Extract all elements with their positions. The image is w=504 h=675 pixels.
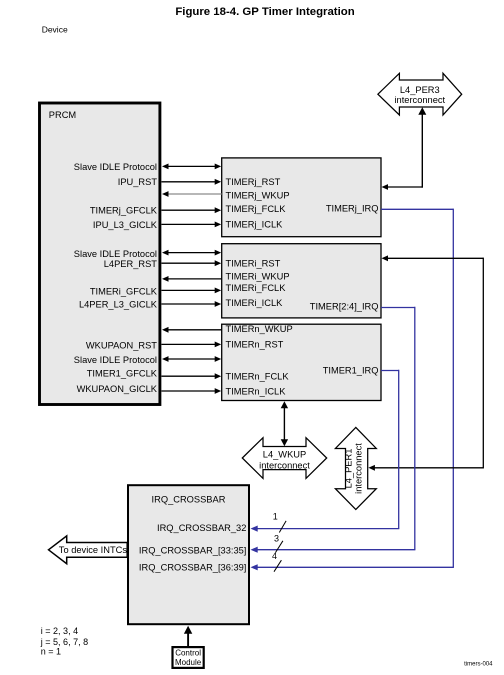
wire WKUPAON_GICLK -> TIMERn_ICLK <box>162 388 222 394</box>
bus slash 4 on IRQ_CROSSBAR_[36:39] wire <box>272 551 281 572</box>
wire L4PER_RST -> TIMERi_RST <box>162 260 222 266</box>
svg-text:L4_PER1: L4_PER1 <box>344 449 354 489</box>
svg-text:TIMERj_RST: TIMERj_RST <box>226 177 281 187</box>
wire TIMER1_IRQ -> IRQ_CROSSBAR_32 (blue) <box>251 370 400 532</box>
svg-text:TIMERn_WKUP: TIMERn_WKUP <box>226 324 293 334</box>
svg-text:L4PER_RST: L4PER_RST <box>104 259 158 269</box>
title Figure 18-4. GP Timer Integration <box>175 6 354 18</box>
svg-text:IRQ_CROSSBAR: IRQ_CROSSBAR <box>152 495 226 505</box>
label TIMERi_FCLK <box>226 283 287 293</box>
wire L4PER_L3_GICLK -> TIMERi_ICLK <box>162 301 222 307</box>
svg-text:n = 1: n = 1 <box>41 646 61 656</box>
svg-text:TIMER[2:4]_IRQ: TIMER[2:4]_IRQ <box>310 302 379 312</box>
svg-text:TIMER1_IRQ: TIMER1_IRQ <box>323 366 379 376</box>
wire TIMERj_GFCLK -> TIMERj_FCLK <box>162 207 222 213</box>
wire TIMER1_GFCLK -> TIMERn_FCLK <box>162 373 222 379</box>
svg-text:L4_WKUP: L4_WKUP <box>263 449 306 459</box>
svg-text:TIMERj_FCLK: TIMERj_FCLK <box>226 204 287 214</box>
svg-text:1: 1 <box>273 512 278 522</box>
svg-text:TIMERj_WKUP: TIMERj_WKUP <box>226 191 290 201</box>
legend i = 2, 3, 4 <box>41 626 78 636</box>
interconnect L4_WKUP <box>242 438 326 479</box>
svg-text:WKUPAON_RST: WKUPAON_RST <box>86 340 157 350</box>
wire IPU_L3_GICLK -> TIMERj_ICLK <box>162 222 222 228</box>
label WKUPAON_RST <box>86 340 157 350</box>
bus slash 1 on IRQ_CROSSBAR_32 wire <box>273 512 286 533</box>
wire TIMERn_WKUP -> PRCM <box>162 327 222 333</box>
label WKUPAON_GICLK <box>77 384 158 394</box>
wire IPU_RST -> TIMERj_RST <box>162 179 222 185</box>
label L4PER_L3_GICLK <box>79 300 158 310</box>
label TIMERj_GFCLK <box>90 205 158 215</box>
label TIMER[2:4]_IRQ <box>310 302 379 312</box>
svg-text:Control: Control <box>175 649 201 658</box>
legend n = 1 <box>41 646 61 656</box>
label IRQ_CROSSBAR_32 <box>157 523 246 533</box>
wire TIMERj_IRQ -> IRQ_CROSSBAR_[36:39] (blue) <box>251 209 454 571</box>
wire TIMERi_GFCLK -> TIMERi_FCLK <box>162 288 222 294</box>
svg-text:IRQ_CROSSBAR_32: IRQ_CROSSBAR_32 <box>157 523 246 533</box>
svg-text:L4PER_L3_GICLK: L4PER_L3_GICLK <box>79 300 158 310</box>
wire TIMERj_WKUP -> PRCM (grey) <box>162 191 222 197</box>
interconnect L4_PER3 <box>378 73 462 115</box>
wire Slave IDLE Protocol <-> TIMERn (bidirectional) <box>162 356 221 362</box>
wire L4_PER1 <-> TIMERi (bidirectional) <box>368 255 484 470</box>
label IPU_RST <box>118 177 158 187</box>
svg-text:TIMER1_GFCLK: TIMER1_GFCLK <box>87 368 158 378</box>
svg-text:3: 3 <box>274 534 279 544</box>
label Slave IDLE Protocol (TIMERn) <box>74 355 157 365</box>
svg-text:Slave IDLE Protocol: Slave IDLE Protocol <box>74 162 157 172</box>
block TIMERn <box>222 324 381 400</box>
wire L4_PER3 <-> TIMERj (bidirectional) <box>382 107 427 190</box>
wire TIMER[2:4]_IRQ -> IRQ_CROSSBAR_[33:35] (blue) <box>251 307 416 553</box>
svg-text:Device: Device <box>42 24 68 34</box>
svg-text:IPU_RST: IPU_RST <box>118 177 158 187</box>
svg-text:TIMERj_IRQ: TIMERj_IRQ <box>326 204 379 214</box>
label TIMERn_WKUP <box>226 324 293 334</box>
label TIMERi_WKUP <box>226 272 290 282</box>
svg-text:PRCM: PRCM <box>49 110 76 120</box>
label TIMERj_ICLK <box>226 220 284 230</box>
svg-text:interconnect: interconnect <box>259 461 310 471</box>
svg-text:To device INTCs: To device INTCs <box>59 545 128 555</box>
label TIMERn_RST <box>226 339 284 349</box>
label TIMERi_RST <box>226 258 281 268</box>
svg-text:Module: Module <box>175 658 202 667</box>
label TIMERi_ICLK <box>226 298 284 308</box>
arrow To device INTCs <box>49 536 128 564</box>
svg-text:Figure 18-4. GP Timer Integrat: Figure 18-4. GP Timer Integration <box>175 6 354 18</box>
svg-text:TIMERi_FCLK: TIMERi_FCLK <box>226 283 287 293</box>
svg-text:timers-004: timers-004 <box>464 661 493 667</box>
interconnect L4_PER1 (vertical) <box>335 427 376 509</box>
svg-text:4: 4 <box>272 551 277 561</box>
bus slash 3 on IRQ_CROSSBAR_[33:35] wire <box>274 534 283 553</box>
svg-text:interconnect: interconnect <box>394 95 445 105</box>
svg-text:WKUPAON_GICLK: WKUPAON_GICLK <box>77 384 158 394</box>
label Device <box>42 24 68 34</box>
label TIMERj_FCLK <box>226 204 287 214</box>
label IRQ_CROSSBAR_[33:35] <box>139 546 246 556</box>
svg-text:TIMERi_ICLK: TIMERi_ICLK <box>226 298 284 308</box>
wire Slave IDLE Protocol <-> TIMERi (bidirectional) <box>162 250 221 256</box>
svg-text:IRQ_CROSSBAR_[36:39]: IRQ_CROSSBAR_[36:39] <box>139 562 246 572</box>
svg-text:TIMERi_GFCLK: TIMERi_GFCLK <box>90 286 158 296</box>
wire WKUPAON_RST -> TIMERn_RST <box>162 342 222 348</box>
svg-text:TIMERn_RST: TIMERn_RST <box>226 339 284 349</box>
wire TIMERi_WKUP -> PRCM <box>162 276 222 282</box>
svg-text:IRQ_CROSSBAR_[33:35]: IRQ_CROSSBAR_[33:35] <box>139 546 246 556</box>
svg-text:TIMERj_GFCLK: TIMERj_GFCLK <box>90 205 158 215</box>
svg-text:i = 2, 3, 4: i = 2, 3, 4 <box>41 626 78 636</box>
svg-text:Slave IDLE Protocol: Slave IDLE Protocol <box>74 249 157 259</box>
block TIMERj <box>222 158 381 237</box>
block IRQ_CROSSBAR <box>128 485 249 624</box>
svg-text:TIMERn_FCLK: TIMERn_FCLK <box>226 372 290 382</box>
svg-text:TIMERj_ICLK: TIMERj_ICLK <box>226 220 284 230</box>
label IPU_L3_GICLK <box>93 220 158 230</box>
block Control Module <box>173 647 204 668</box>
label TIMER1_IRQ <box>323 366 379 376</box>
label IRQ_CROSSBAR_[36:39] <box>139 562 246 572</box>
wire Control Module -> IRQ_CROSSBAR <box>184 626 192 646</box>
block TIMERi <box>222 244 381 318</box>
label TIMERn_ICLK <box>226 386 287 396</box>
label Slave IDLE Protocol (TIMERi) <box>74 249 157 259</box>
label TIMER1_GFCLK <box>87 368 158 378</box>
svg-text:IPU_L3_GICLK: IPU_L3_GICLK <box>93 220 158 230</box>
svg-text:TIMERi_WKUP: TIMERi_WKUP <box>226 272 290 282</box>
wire TIMERn <-> L4_WKUP (bidirectional vertical) <box>281 401 288 446</box>
wire Slave IDLE Protocol <-> TIMERj (bidirectional) <box>162 164 221 170</box>
legend j = 5, 6, 7, 8 <box>40 637 88 647</box>
label TIMERj_RST <box>226 177 281 187</box>
svg-text:TIMERi_RST: TIMERi_RST <box>226 258 281 268</box>
svg-text:TIMERn_ICLK: TIMERn_ICLK <box>226 386 287 396</box>
label TIMERn_FCLK <box>226 372 290 382</box>
svg-text:L4_PER3: L4_PER3 <box>400 85 440 95</box>
label timers-004 <box>464 661 493 667</box>
block PRCM <box>40 103 160 405</box>
label Slave IDLE Protocol (TIMERj) <box>74 162 157 172</box>
label TIMERj_IRQ <box>326 204 379 214</box>
svg-text:interconnect: interconnect <box>354 443 364 494</box>
svg-text:Slave IDLE Protocol: Slave IDLE Protocol <box>74 355 157 365</box>
label TIMERi_GFCLK <box>90 286 158 296</box>
label TIMERj_WKUP <box>226 191 290 201</box>
label L4PER_RST <box>104 259 158 269</box>
